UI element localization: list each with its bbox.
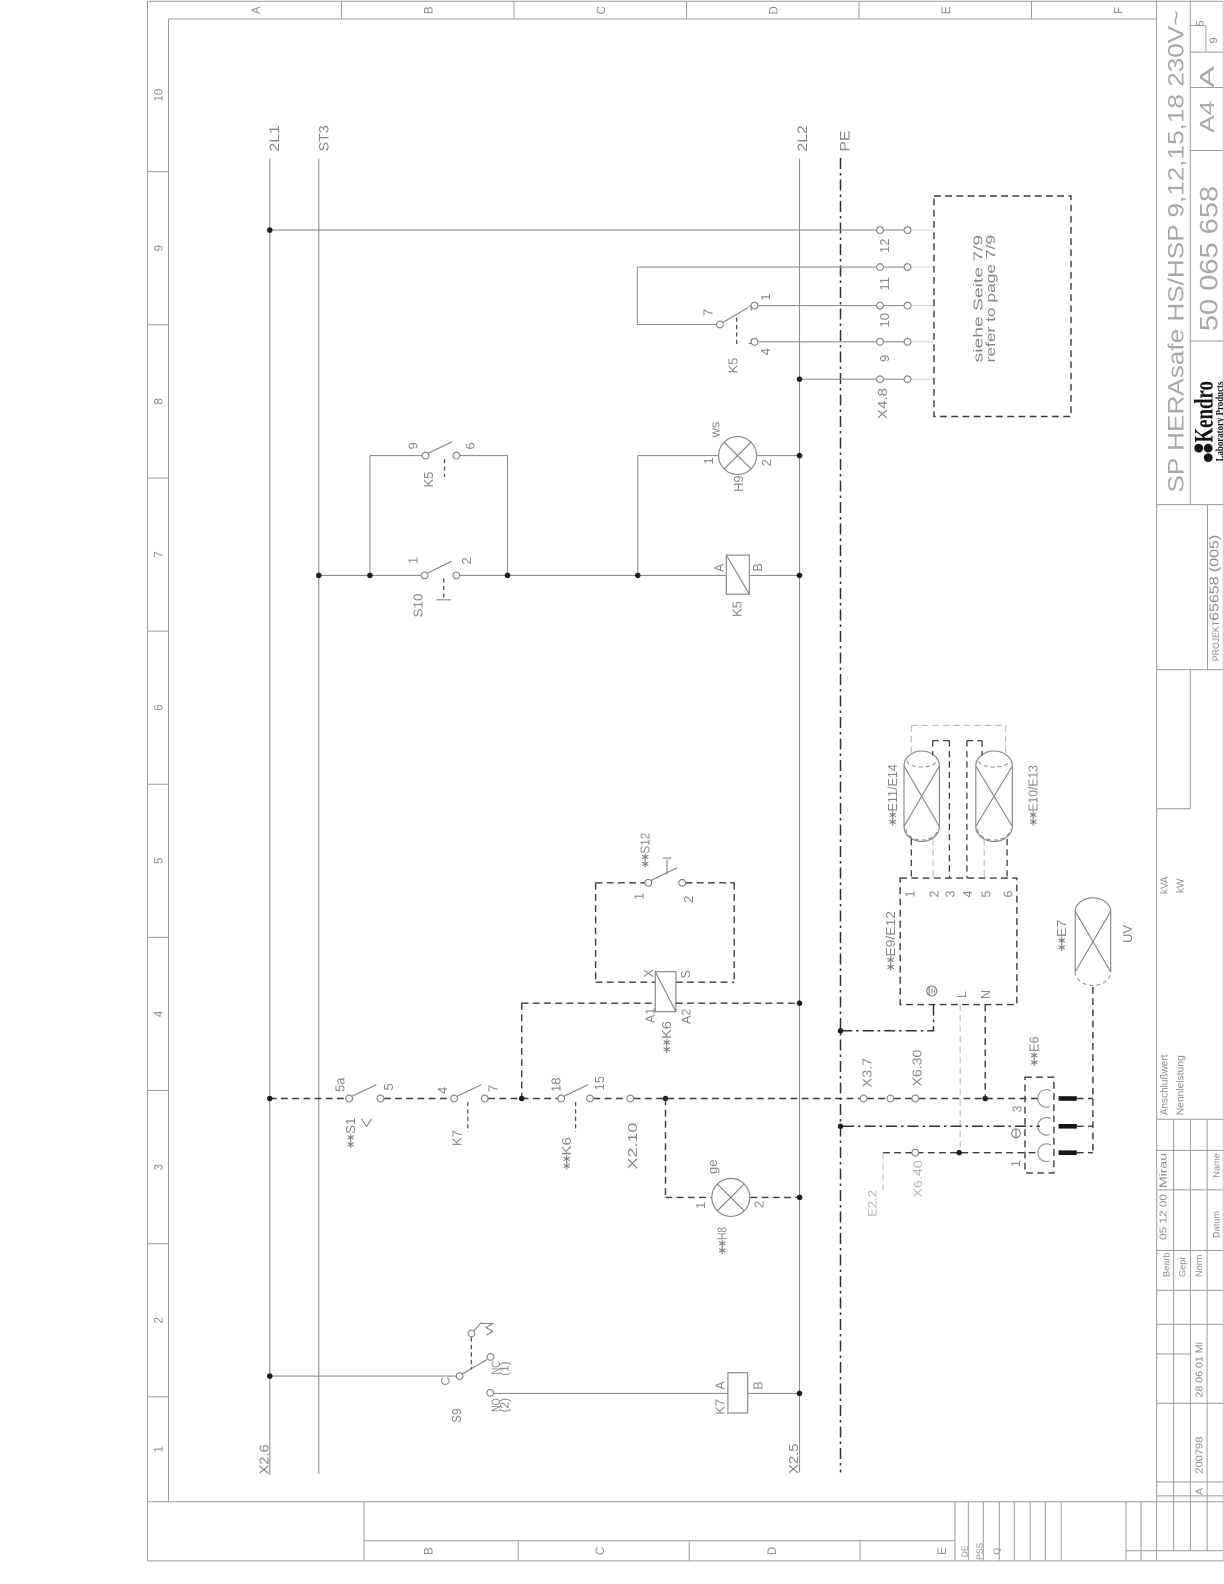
svg-text:E: E <box>941 6 953 14</box>
svg-text:Datum: Datum <box>1212 1211 1222 1238</box>
svg-text:10: 10 <box>154 89 166 102</box>
svg-text:4: 4 <box>961 891 975 898</box>
svg-text:A: A <box>1194 1488 1206 1495</box>
svg-text:65658 (005): 65658 (005) <box>1208 535 1222 621</box>
svg-text:9: 9 <box>877 355 892 362</box>
svg-text:6: 6 <box>154 704 166 710</box>
svg-text:Anschlußwert: Anschlußwert <box>1160 1054 1171 1115</box>
svg-text:2L2: 2L2 <box>795 125 810 151</box>
svg-text:5a: 5a <box>333 1077 348 1092</box>
svg-text:E10/E13: E10/E13 <box>1027 765 1041 811</box>
svg-text:UV: UV <box>1120 925 1135 943</box>
svg-text:Gepr: Gepr <box>1178 1257 1188 1277</box>
svg-text:Q: Q <box>991 1548 1001 1555</box>
svg-text:5: 5 <box>1195 20 1207 26</box>
svg-text:E11/E14: E11/E14 <box>886 764 900 811</box>
svg-text:Bearb: Bearb <box>1162 1252 1172 1277</box>
svg-text:9: 9 <box>1208 37 1220 43</box>
svg-text:3: 3 <box>1011 1106 1025 1113</box>
svg-text:4: 4 <box>758 348 773 355</box>
svg-text:S1: S1 <box>344 1117 358 1134</box>
svg-text:7: 7 <box>701 309 716 316</box>
svg-text:A: A <box>714 1381 728 1390</box>
svg-text:kW: kW <box>1176 878 1187 893</box>
svg-text:D: D <box>769 6 781 14</box>
svg-text:B: B <box>751 563 765 571</box>
svg-text:E2.2: E2.2 <box>868 1190 880 1217</box>
svg-text:K7: K7 <box>713 1399 728 1415</box>
svg-text:200798: 200798 <box>1194 1436 1206 1473</box>
svg-text:6: 6 <box>1002 891 1016 898</box>
svg-text:A: A <box>1197 65 1219 88</box>
svg-text:2: 2 <box>928 891 942 898</box>
svg-text:4: 4 <box>154 1010 166 1017</box>
svg-text:Name: Name <box>1212 1153 1222 1178</box>
svg-text:Nennleistung: Nennleistung <box>1176 1055 1187 1115</box>
svg-text:Norm: Norm <box>1194 1254 1204 1277</box>
svg-text:6: 6 <box>463 442 478 449</box>
svg-text:B: B <box>424 6 436 14</box>
svg-text:X2.10: X2.10 <box>626 1123 640 1170</box>
svg-text:K5: K5 <box>726 358 741 374</box>
svg-text:2: 2 <box>752 1201 767 1208</box>
svg-text:S10: S10 <box>412 593 426 617</box>
svg-text:1: 1 <box>693 1202 708 1209</box>
svg-text:kVA: kVA <box>1160 876 1171 894</box>
svg-text:K7: K7 <box>450 1130 465 1146</box>
svg-text:A4: A4 <box>1197 101 1219 133</box>
svg-text:(2): (2) <box>500 1398 512 1413</box>
svg-text:11: 11 <box>877 277 892 291</box>
svg-text:D: D <box>767 1547 779 1555</box>
svg-text:18: 18 <box>548 1078 563 1092</box>
svg-text:2: 2 <box>759 459 774 466</box>
svg-text:B: B <box>424 1547 436 1555</box>
svg-text:2L1: 2L1 <box>267 125 282 151</box>
svg-text:1: 1 <box>154 1446 166 1452</box>
svg-text:A1: A1 <box>644 1008 658 1023</box>
svg-text:E7: E7 <box>1055 920 1069 937</box>
svg-text:K6: K6 <box>660 1021 674 1039</box>
svg-text:ge: ge <box>705 1160 720 1174</box>
svg-text:8: 8 <box>154 398 166 404</box>
svg-text:B: B <box>751 1381 765 1389</box>
svg-text:A2: A2 <box>680 1009 694 1024</box>
svg-text:5: 5 <box>381 1083 396 1090</box>
svg-text:7: 7 <box>154 551 166 557</box>
svg-text:1: 1 <box>701 457 716 464</box>
svg-text:F: F <box>1114 7 1126 14</box>
svg-text:9: 9 <box>154 245 166 251</box>
svg-text:05 12 00: 05 12 00 <box>1158 1194 1170 1240</box>
svg-text:K5: K5 <box>730 601 745 617</box>
svg-text:L: L <box>955 991 969 998</box>
svg-text:28 06 01 Mi: 28 06 01 Mi <box>1194 1342 1206 1398</box>
svg-text:10: 10 <box>877 313 892 327</box>
svg-text:X2.6: X2.6 <box>258 1444 272 1474</box>
svg-text:3: 3 <box>943 891 957 898</box>
svg-text:X: X <box>642 969 656 978</box>
svg-text:9: 9 <box>406 442 421 449</box>
svg-text:X3.7: X3.7 <box>861 1058 875 1088</box>
svg-text:5: 5 <box>154 858 166 864</box>
svg-text:1: 1 <box>904 891 918 898</box>
svg-text:K5: K5 <box>421 472 436 488</box>
svg-text:SP HERAsafe HS/HSP 9,12,15,1: SP HERAsafe HS/HSP 9,12,15,18 230V~ <box>1164 11 1189 493</box>
svg-text:A: A <box>251 6 263 14</box>
svg-text:ws: ws <box>708 421 723 438</box>
svg-text:K6: K6 <box>560 1137 574 1155</box>
svg-text:C: C <box>595 1547 607 1555</box>
svg-text:5: 5 <box>980 891 994 898</box>
svg-text:E6: E6 <box>1028 1036 1042 1052</box>
svg-text:2: 2 <box>681 896 696 903</box>
svg-text:1: 1 <box>758 293 773 300</box>
svg-text:(1): (1) <box>500 1361 512 1376</box>
svg-text:Mirau: Mirau <box>1158 1153 1170 1188</box>
svg-text:S9: S9 <box>450 1408 464 1422</box>
svg-text:C: C <box>439 1377 453 1386</box>
svg-text:PSS: PSS <box>975 1542 985 1559</box>
svg-text:S: S <box>679 970 693 978</box>
svg-text:X2.5: X2.5 <box>787 1443 801 1474</box>
svg-text:1: 1 <box>406 557 421 564</box>
svg-text:X6.30: X6.30 <box>911 1050 925 1087</box>
svg-text:3: 3 <box>154 1164 166 1170</box>
svg-text:A: A <box>713 563 727 572</box>
svg-text:DE: DE <box>960 1545 970 1557</box>
svg-text:1: 1 <box>632 893 647 900</box>
svg-text:refer to page 7/9: refer to page 7/9 <box>984 235 998 363</box>
svg-text:PE: PE <box>838 131 853 152</box>
svg-text:7: 7 <box>485 1085 500 1092</box>
svg-text:X6.40: X6.40 <box>913 1160 925 1197</box>
svg-text:S12: S12 <box>639 833 653 854</box>
svg-text:H8: H8 <box>716 1227 730 1240</box>
svg-text:C: C <box>596 6 608 14</box>
svg-text:H9: H9 <box>731 475 746 492</box>
svg-text:2: 2 <box>154 1317 166 1323</box>
svg-text:E9/E12: E9/E12 <box>884 911 898 956</box>
svg-text:N: N <box>979 990 993 999</box>
svg-text:X4.8: X4.8 <box>876 388 890 419</box>
svg-text:E: E <box>937 1547 949 1555</box>
svg-text:2: 2 <box>459 557 474 564</box>
svg-text:1: 1 <box>1009 1160 1023 1167</box>
svg-text:50 065 658: 50 065 658 <box>1196 186 1224 331</box>
svg-text:4: 4 <box>435 1087 450 1094</box>
svg-text:15: 15 <box>592 1076 607 1090</box>
svg-text:ST3: ST3 <box>316 125 331 151</box>
svg-text:PROJEKT: PROJEKT <box>1211 621 1221 662</box>
svg-text:12: 12 <box>877 239 892 253</box>
svg-text:Laboratory Products: Laboratory Products <box>1215 382 1224 462</box>
